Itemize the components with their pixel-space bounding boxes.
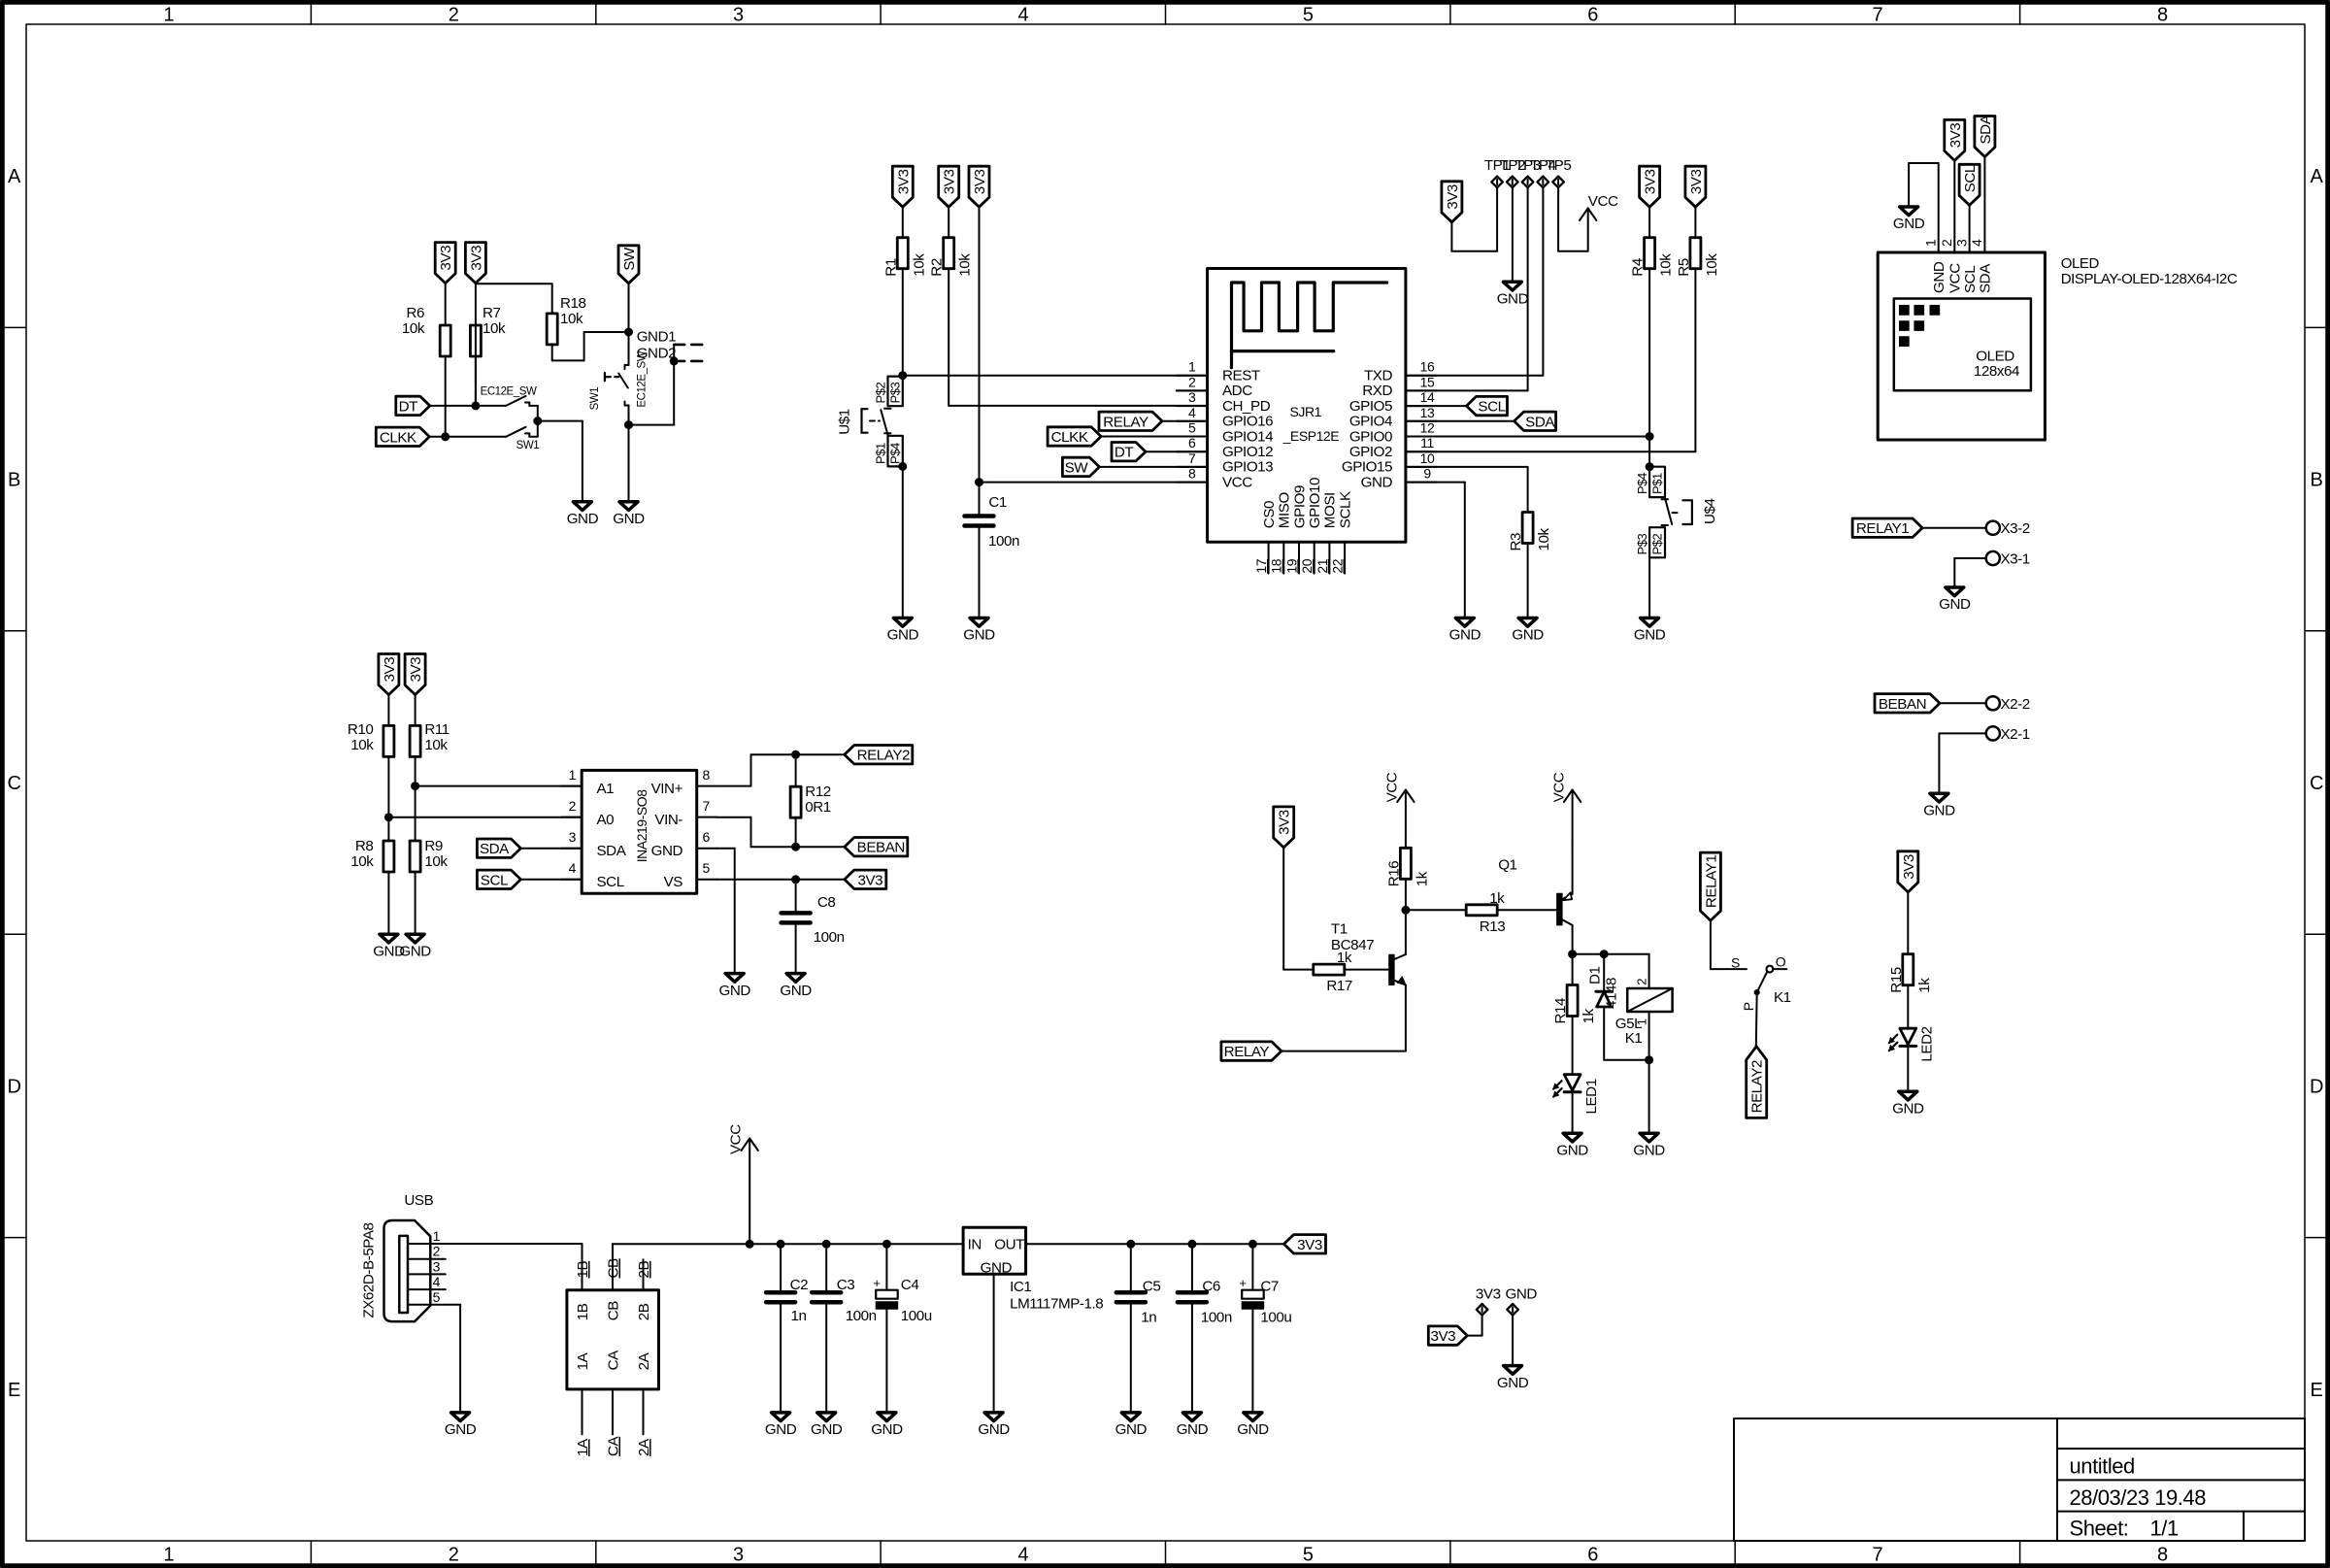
svg-text:3: 3 xyxy=(733,1545,744,1566)
svg-text:100n: 100n xyxy=(846,1308,877,1324)
ground GND (pin9) xyxy=(1449,618,1481,644)
wire U$4 to GND xyxy=(1648,557,1650,617)
svg-text:SDA: SDA xyxy=(480,841,510,857)
svg-text:3V3: 3V3 xyxy=(1947,123,1964,149)
svg-text:P$3: P$3 xyxy=(1635,533,1649,554)
wire SW1 common to GND xyxy=(538,421,582,502)
junction coil/D1/GND xyxy=(1646,1056,1653,1064)
wire T1 collector xyxy=(1405,910,1407,954)
svg-text:3V3: 3V3 xyxy=(1901,854,1917,880)
svg-text:GND2: GND2 xyxy=(637,345,676,361)
svg-text:GND1: GND1 xyxy=(637,329,676,346)
junction C6 xyxy=(1188,1240,1196,1248)
svg-text:4: 4 xyxy=(1017,1545,1028,1566)
svg-text:10k: 10k xyxy=(957,253,974,277)
svg-text:C8: C8 xyxy=(817,894,836,911)
svg-text:3: 3 xyxy=(733,5,744,26)
svg-text:4: 4 xyxy=(569,860,577,876)
wire R5 to GPIO2 xyxy=(1406,269,1696,452)
switch SW1 encoder pushbutton xyxy=(605,365,629,425)
wire C5 to GND xyxy=(1130,1304,1132,1413)
wire C6 xyxy=(1191,1244,1193,1290)
svg-text:VIN+: VIN+ xyxy=(651,781,683,797)
svg-text:CS0: CS0 xyxy=(1261,501,1278,528)
wire SDA to pin3 xyxy=(520,848,582,850)
capacitor C4 (polarized) xyxy=(873,1276,931,1324)
svg-text:10k: 10k xyxy=(350,737,374,753)
wire Q1 emitter to VCC xyxy=(1572,847,1574,894)
wire RELAY to GPIO16 xyxy=(1162,420,1208,422)
svg-text:3V3: 3V3 xyxy=(1476,1285,1501,1302)
net label BEBAN (INA219) xyxy=(845,838,908,856)
svg-text:18: 18 xyxy=(1269,558,1284,573)
junction R12 bottom xyxy=(792,843,800,851)
svg-text:D1: D1 xyxy=(1587,966,1604,984)
svg-text:5: 5 xyxy=(433,1289,441,1305)
svg-text:EC12E_SW: EC12E_SW xyxy=(481,386,537,398)
svg-text:SDA: SDA xyxy=(1525,414,1555,430)
svg-text:1k: 1k xyxy=(1489,890,1505,907)
svg-text:CLKK: CLKK xyxy=(1051,429,1088,446)
label S xyxy=(1731,954,1740,970)
svg-text:GND: GND xyxy=(887,627,919,644)
svg-text:E: E xyxy=(2311,1380,2323,1401)
svg-text:C: C xyxy=(2310,773,2323,794)
pad X3-2 xyxy=(1986,520,2030,537)
wire R1 to REST xyxy=(902,269,904,376)
svg-text:2: 2 xyxy=(449,1545,459,1566)
svg-text:BEBAN: BEBAN xyxy=(1879,696,1926,713)
svg-text:K1: K1 xyxy=(1774,989,1791,1006)
wire INA GND pin xyxy=(717,849,735,974)
svg-text:ADC: ADC xyxy=(1222,383,1252,399)
svg-text:12: 12 xyxy=(1420,420,1435,436)
svg-text:BC847: BC847 xyxy=(1331,937,1374,953)
contact O xyxy=(1767,953,1787,972)
connector USB ZX62D-B-5PA8 xyxy=(360,1192,446,1321)
svg-text:1/1: 1/1 xyxy=(2150,1517,2179,1541)
wire GND jumper xyxy=(1512,1316,1514,1366)
capacitor C5 xyxy=(1116,1279,1161,1326)
svg-text:16: 16 xyxy=(1420,359,1435,375)
wire R13 to Q1 base xyxy=(1497,909,1558,911)
wire C8 to GND xyxy=(795,922,797,973)
svg-text:K1: K1 xyxy=(1625,1030,1643,1047)
resistor R3 xyxy=(1508,513,1552,551)
relay K1 contact lever xyxy=(1754,972,1767,995)
net flag RELAY1 (contact) xyxy=(1700,852,1720,920)
wire TP5 to VCC xyxy=(1558,187,1588,251)
wire coil to GND xyxy=(1648,1060,1650,1134)
supply flag 3V3 (R6) xyxy=(435,243,455,284)
svg-text:3V3: 3V3 xyxy=(1277,810,1293,835)
svg-text:10k: 10k xyxy=(483,320,506,337)
svg-text:GPIO0: GPIO0 xyxy=(1349,428,1392,445)
wire pole to RELAY2 xyxy=(1755,992,1758,1047)
svg-text:3V3: 3V3 xyxy=(1688,170,1705,195)
resistor R8 xyxy=(350,838,394,872)
wire coil pin1 xyxy=(1648,1012,1650,1060)
ground GND (C7) xyxy=(1237,1413,1269,1438)
pad X3-1 xyxy=(1986,551,2030,568)
relay K1 coil G5L xyxy=(1615,979,1673,1047)
svg-text:O: O xyxy=(1776,953,1786,969)
svg-text:3V3: 3V3 xyxy=(1297,1237,1322,1253)
svg-text:P$1: P$1 xyxy=(1649,473,1664,494)
svg-text:2: 2 xyxy=(433,1244,441,1259)
wire REST xyxy=(903,375,1208,377)
net label SDA (GPIO4) xyxy=(1514,412,1556,430)
wire 3V3 to R4 xyxy=(1648,207,1650,238)
net label SCL (GPIO5) xyxy=(1467,396,1508,415)
svg-text:GND: GND xyxy=(1892,1100,1924,1117)
svg-text:X3-2: X3-2 xyxy=(2001,520,2030,537)
ground GND (encoder right) xyxy=(613,502,645,527)
net label BEBAN (X2) xyxy=(1875,694,1940,713)
resistor R13 xyxy=(1466,890,1505,935)
svg-text:R11: R11 xyxy=(424,721,449,738)
svg-text:X2-2: X2-2 xyxy=(2001,696,2030,713)
svg-text:D: D xyxy=(8,1076,21,1097)
svg-text:1: 1 xyxy=(163,5,174,26)
svg-text:P: P xyxy=(1741,1002,1756,1011)
wire R3 to GND xyxy=(1527,544,1529,618)
svg-text:GND: GND xyxy=(1939,596,1971,613)
svg-text:GND: GND xyxy=(1556,1142,1588,1158)
wire C6 to GND xyxy=(1191,1304,1193,1413)
svg-text:6: 6 xyxy=(1587,5,1598,26)
svg-text:2A: 2A xyxy=(636,1438,652,1456)
diode D1 4148 xyxy=(1587,954,1620,1009)
svg-text:VIN-: VIN- xyxy=(654,812,682,828)
wire R7 to DT net xyxy=(475,356,477,406)
ground GND (OLED) xyxy=(1893,207,1925,232)
svg-text:TXD: TXD xyxy=(1364,368,1393,384)
svg-text:GND: GND xyxy=(963,627,995,644)
svg-text:1: 1 xyxy=(163,1545,174,1566)
svg-text:2A: 2A xyxy=(636,1351,652,1370)
junction DT/R7 xyxy=(472,402,480,410)
svg-text:100u: 100u xyxy=(1260,1310,1291,1326)
wire 3V3 to DT net and R18 xyxy=(476,284,552,406)
IC INA219-SO8 xyxy=(561,767,717,893)
svg-text:SCL: SCL xyxy=(597,874,624,890)
resistor R14 xyxy=(1552,985,1597,1024)
wire D1 to coil bottom xyxy=(1604,1007,1648,1060)
label 3V3 GND (jumper) xyxy=(1476,1285,1537,1302)
svg-text:4: 4 xyxy=(1188,405,1196,420)
ground GND (C5) xyxy=(1115,1413,1148,1438)
svg-text:Q1: Q1 xyxy=(1498,856,1516,873)
svg-text:USB: USB xyxy=(404,1192,433,1209)
wire C4 xyxy=(885,1244,887,1289)
junction C7 xyxy=(1248,1240,1256,1248)
svg-text:GND: GND xyxy=(1115,1421,1148,1438)
capacitor C2 xyxy=(766,1277,808,1324)
svg-text:22: 22 xyxy=(1330,558,1346,573)
svg-text:3V3: 3V3 xyxy=(1643,170,1659,195)
ground GND (R9) xyxy=(399,934,431,959)
svg-text:5: 5 xyxy=(1188,420,1196,436)
net label DT (GPIO12) xyxy=(1112,443,1146,461)
wire USB GND to ground xyxy=(446,1305,460,1413)
svg-text:R15: R15 xyxy=(1888,967,1905,993)
svg-text:GND: GND xyxy=(1633,1142,1665,1158)
wire pushbutton to GND2 node xyxy=(629,345,675,425)
svg-text:B: B xyxy=(2311,470,2323,491)
svg-text:OLED: OLED xyxy=(2061,255,2100,272)
svg-text:CB: CB xyxy=(606,1301,622,1321)
svg-text:T1: T1 xyxy=(1331,920,1348,937)
net label CLKK (GPIO14) xyxy=(1048,427,1101,446)
switch U$4 xyxy=(1635,467,1692,558)
svg-text:2: 2 xyxy=(1635,979,1649,985)
test pad 3V3 (jumper) xyxy=(1477,1304,1488,1316)
dashed wire GND1 xyxy=(674,344,705,347)
svg-text:MOSI: MOSI xyxy=(1322,492,1339,528)
svg-text:+: + xyxy=(1239,1276,1246,1290)
svg-text:GND: GND xyxy=(613,511,645,527)
ground GND (C2) xyxy=(765,1413,797,1438)
ground GND (C8) xyxy=(780,974,812,999)
svg-text:A: A xyxy=(8,166,21,187)
supply flag 3V3 (R17) xyxy=(1274,807,1294,848)
svg-text:E: E xyxy=(8,1380,20,1401)
wire VIN+ to RELAY2 xyxy=(717,754,845,785)
pad X2-1 xyxy=(1986,726,2030,743)
wire R11 to A1/R9 xyxy=(415,756,416,841)
wire C5 xyxy=(1130,1244,1132,1290)
svg-text:INA219-SO8: INA219-SO8 xyxy=(634,789,649,863)
ground GND (LED1) xyxy=(1556,1133,1588,1158)
resistor R10 xyxy=(348,721,394,756)
net label RELAY (GPIO16) xyxy=(1099,412,1162,430)
svg-text:128x64: 128x64 xyxy=(1974,363,2019,380)
supply flag 3V3 (TP1) xyxy=(1442,182,1462,222)
svg-text:1n: 1n xyxy=(1141,1310,1156,1326)
junction GND2 xyxy=(670,357,678,365)
svg-text:1B: 1B xyxy=(575,1261,591,1279)
svg-text:DISPLAY-OLED-128X64-I2C: DISPLAY-OLED-128X64-I2C xyxy=(2061,271,2238,287)
capacitor C3 xyxy=(812,1277,877,1324)
wire C7 to GND xyxy=(1251,1309,1253,1413)
svg-text:VS: VS xyxy=(664,874,683,890)
resistor R18 xyxy=(547,295,585,345)
svg-text:GPIO10: GPIO10 xyxy=(1307,478,1323,528)
resistor R5 xyxy=(1676,238,1720,277)
svg-text:RELAY: RELAY xyxy=(1103,414,1148,430)
wire SW to GPIO13 xyxy=(1099,466,1207,468)
wire VIN- to BEBAN xyxy=(717,817,845,848)
svg-text:GND: GND xyxy=(1361,474,1393,490)
wire R12 xyxy=(795,754,797,847)
svg-text:3: 3 xyxy=(569,829,577,845)
svg-text:X2-1: X2-1 xyxy=(2001,726,2030,743)
junction R14 node xyxy=(1569,951,1577,958)
svg-text:R9: R9 xyxy=(424,838,443,854)
wire coil pin2 xyxy=(1648,954,1650,988)
svg-text:R12: R12 xyxy=(805,784,831,800)
svg-text:1k: 1k xyxy=(1916,978,1933,993)
wire VBUS to 1B xyxy=(446,1243,582,1245)
svg-text:10k: 10k xyxy=(424,737,448,753)
wire C3 to GND xyxy=(825,1304,827,1413)
wire C7 xyxy=(1251,1244,1253,1289)
label GND1 xyxy=(637,329,676,346)
svg-text:3V3: 3V3 xyxy=(972,170,988,195)
svg-text:3: 3 xyxy=(433,1258,441,1274)
svg-text:GND: GND xyxy=(1237,1421,1269,1438)
svg-text:4: 4 xyxy=(1969,239,1984,247)
wire X3-1 to GND xyxy=(1954,558,1985,587)
svg-text:3V3: 3V3 xyxy=(857,872,882,888)
svg-text:SCLK: SCLK xyxy=(1337,491,1353,528)
wire 3V3 to VCC pin xyxy=(980,207,1208,483)
svg-text:X3-1: X3-1 xyxy=(2001,551,2030,568)
label GND2 xyxy=(637,345,676,361)
resistor R16 xyxy=(1385,848,1430,886)
svg-text:VCC: VCC xyxy=(1383,772,1400,802)
supply flag 3V3 (R7) xyxy=(465,243,485,284)
wire Q1 collector xyxy=(1572,925,1574,954)
label _ESP12E xyxy=(1282,428,1340,444)
svg-text:U$1: U$1 xyxy=(837,409,853,435)
svg-text:28/03/23 19.48: 28/03/23 19.48 xyxy=(2070,1485,2207,1510)
wire R14 to LED1 xyxy=(1572,1017,1574,1075)
svg-text:GPIO4: GPIO4 xyxy=(1349,414,1392,430)
wire TP1 to 3V3 xyxy=(1451,187,1497,251)
net label RELAY1 (X3) xyxy=(1852,518,1922,537)
svg-text:GND: GND xyxy=(399,943,431,959)
ground GND (R8) xyxy=(373,934,405,959)
wire OLED SCL pin xyxy=(1969,205,1971,252)
svg-text:GND: GND xyxy=(1506,1285,1538,1302)
svg-text:GPIO5: GPIO5 xyxy=(1349,398,1392,415)
svg-text:3V3: 3V3 xyxy=(1430,1328,1455,1345)
svg-text:GPIO9: GPIO9 xyxy=(1291,485,1308,528)
transistor T1 BC847 xyxy=(1331,920,1406,984)
junction A1 xyxy=(412,783,419,790)
wire A1 to pin1 xyxy=(416,785,582,787)
wire R4 to GPIO0 xyxy=(1648,269,1650,467)
svg-text:GND: GND xyxy=(1893,216,1925,232)
svg-text:P$2: P$2 xyxy=(1649,533,1664,554)
svg-text:2: 2 xyxy=(449,5,459,26)
junction VCC xyxy=(746,1240,753,1248)
svg-text:GPIO2: GPIO2 xyxy=(1349,444,1392,460)
svg-text:0R1: 0R1 xyxy=(805,799,831,816)
svg-text:5: 5 xyxy=(1303,1545,1314,1566)
label P (rotated) xyxy=(1741,1002,1756,1011)
wire TP2 to GND xyxy=(1512,187,1514,282)
svg-text:4: 4 xyxy=(433,1274,441,1289)
supply flag 3V3 (OLED VCC) xyxy=(1945,119,1965,160)
supply flag 3V3 (R4) xyxy=(1640,166,1660,207)
wire TP4 to TXD xyxy=(1406,187,1544,376)
svg-text:VCC: VCC xyxy=(1551,772,1568,802)
net label RELAY (T1) xyxy=(1221,1042,1281,1060)
svg-text:Sheet:: Sheet: xyxy=(2070,1517,2129,1541)
wire C2 xyxy=(780,1244,782,1290)
svg-text:B: B xyxy=(8,470,20,491)
svg-text:1B: 1B xyxy=(575,1303,591,1320)
svg-text:OUT: OUT xyxy=(994,1237,1024,1253)
svg-text:GND: GND xyxy=(780,983,812,999)
IC IC1 LM1117MP-1.8 xyxy=(963,1227,1103,1312)
svg-text:GND: GND xyxy=(981,1260,1013,1277)
ground GND (X2-1) xyxy=(1923,793,1955,818)
supply symbol VCC (R16) xyxy=(1383,772,1414,846)
wire RELAY to T1 emitter xyxy=(1281,985,1406,1051)
svg-text:GPIO16: GPIO16 xyxy=(1222,414,1273,430)
svg-text:6: 6 xyxy=(1587,1545,1598,1566)
svg-text:SCL: SCL xyxy=(1962,165,1979,192)
svg-text:10k: 10k xyxy=(911,253,927,277)
wire IC1 GND to ground xyxy=(993,1274,995,1413)
svg-text:DT: DT xyxy=(399,398,418,415)
svg-text:1: 1 xyxy=(433,1228,441,1244)
svg-text:R5: R5 xyxy=(1676,258,1692,277)
wire RELAY1 to S xyxy=(1711,920,1747,969)
svg-text:TP5: TP5 xyxy=(1546,157,1572,174)
junction U$1 bottom xyxy=(899,462,907,470)
svg-text:C6: C6 xyxy=(1202,1279,1220,1295)
svg-text:2: 2 xyxy=(1188,374,1196,389)
svg-text:100n: 100n xyxy=(988,533,1019,550)
wire OLED SDA pin xyxy=(1983,156,1985,252)
svg-text:GND: GND xyxy=(1497,1375,1529,1391)
svg-text:1k: 1k xyxy=(1414,871,1430,886)
wire node to R13 xyxy=(1406,909,1466,911)
svg-text:RELAY1: RELAY1 xyxy=(1703,855,1719,908)
wire R8 to GND xyxy=(387,872,389,934)
svg-text:R14: R14 xyxy=(1552,998,1569,1024)
svg-text:20: 20 xyxy=(1299,558,1315,573)
supply flag 3V3 (R10) xyxy=(379,654,399,695)
svg-text:R1: R1 xyxy=(882,258,899,277)
resistor R12 xyxy=(790,784,831,817)
svg-text:GND: GND xyxy=(1634,627,1666,644)
junction T1 collector node xyxy=(1402,906,1410,914)
svg-text:C4: C4 xyxy=(901,1277,919,1293)
svg-text:DT: DT xyxy=(1115,445,1134,461)
svg-text:7: 7 xyxy=(1873,1545,1883,1566)
svg-text:RELAY1: RELAY1 xyxy=(1856,520,1909,537)
svg-text:P$4: P$4 xyxy=(888,443,903,464)
svg-text:17: 17 xyxy=(1253,558,1269,573)
wire R16 to VCC xyxy=(1405,847,1407,849)
label EC12E_SW (SW1 left) xyxy=(481,386,537,398)
svg-text:3V3: 3V3 xyxy=(438,246,454,271)
switch U$1 xyxy=(862,377,903,467)
wire OLED GND pin xyxy=(1909,163,1939,252)
svg-text:1A: 1A xyxy=(575,1351,591,1370)
wire VS to C8 xyxy=(795,880,797,914)
svg-text:CA: CA xyxy=(606,1435,622,1456)
wire 3V3 to R1 xyxy=(902,207,904,238)
svg-text:10k: 10k xyxy=(1536,528,1552,551)
svg-text:4148: 4148 xyxy=(1604,978,1620,1009)
junction SW1 common xyxy=(534,417,542,425)
ground GND (C4) xyxy=(871,1413,903,1438)
supply flag 3V3 (R15) xyxy=(1898,851,1918,892)
svg-text:R2: R2 xyxy=(929,258,946,277)
wire OUT to 3V3 xyxy=(1026,1243,1284,1245)
wire GPIO15 to R3 xyxy=(1406,467,1528,513)
module OLED display xyxy=(1878,252,2045,440)
wire CLKK to GPIO14 xyxy=(1101,436,1208,438)
svg-text:RELAY: RELAY xyxy=(1224,1044,1270,1060)
